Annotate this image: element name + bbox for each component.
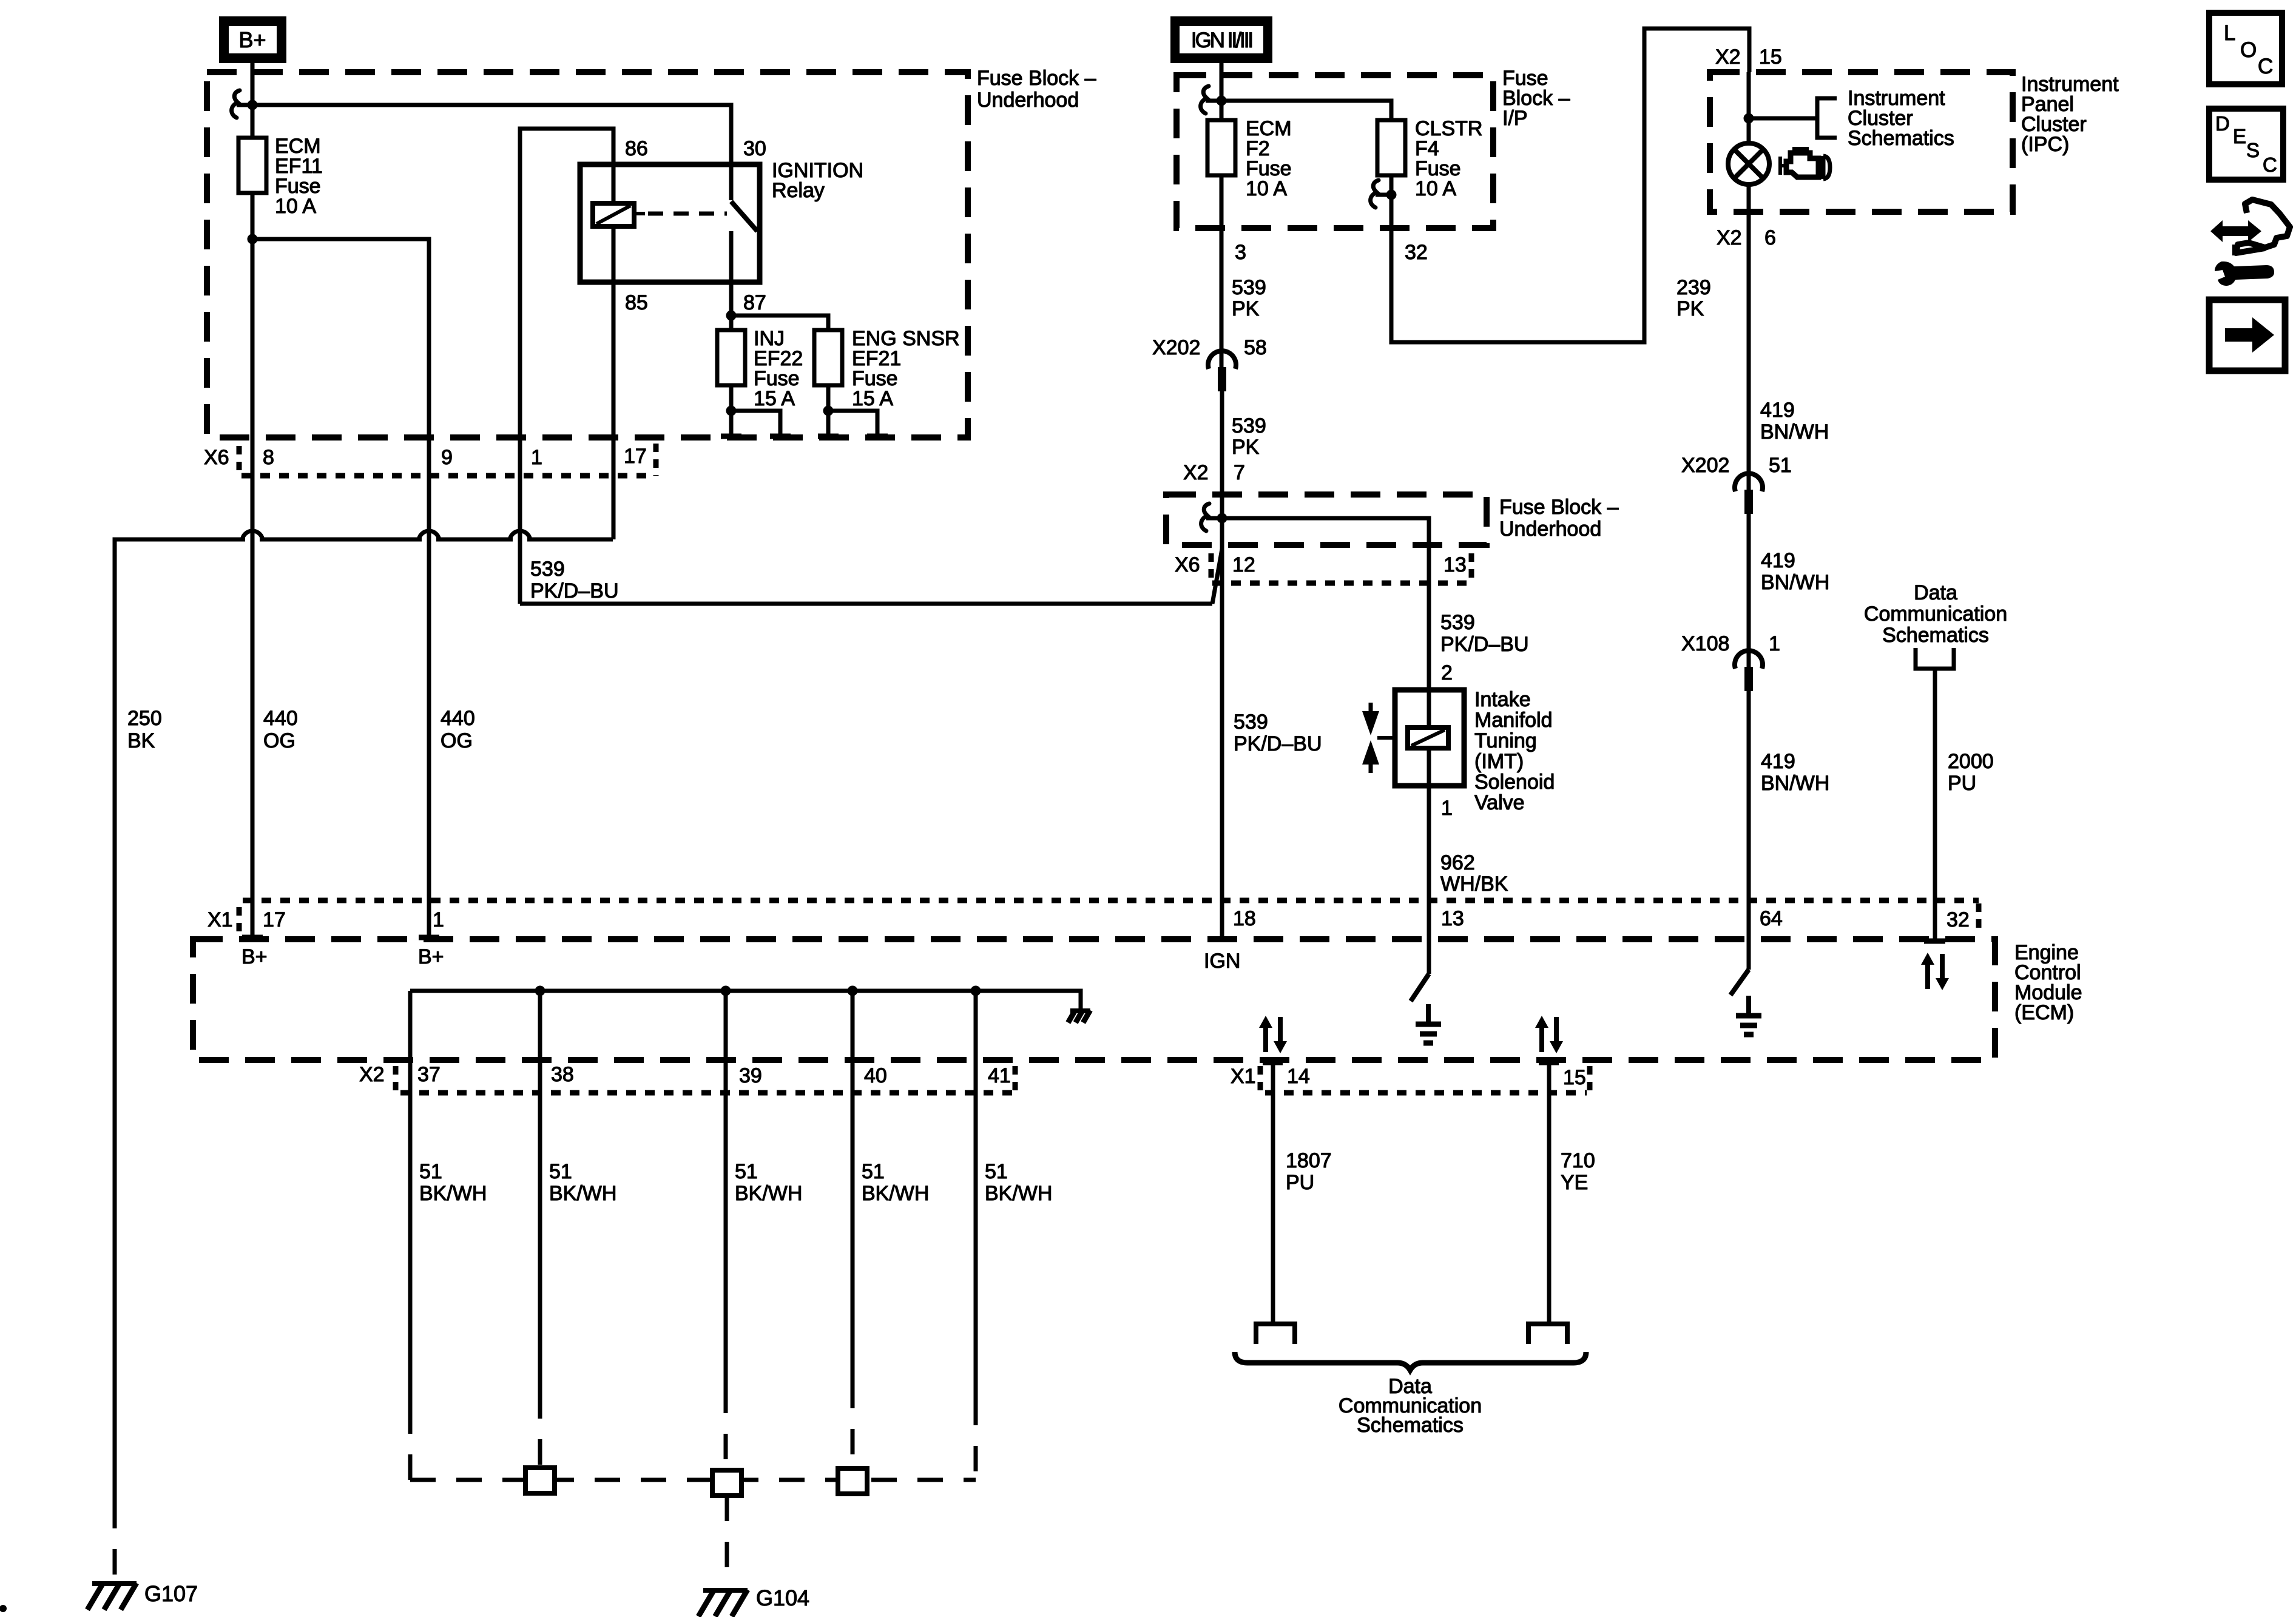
wire feed to CLSTR F4 fuse [1221,101,1391,120]
data wire 1807 PU [1256,1060,1295,1344]
ECM internal chassis ground [1068,1010,1090,1022]
svg-text:G107: G107 [144,1581,198,1606]
svg-text:PK: PK [1676,297,1704,320]
svg-text:85: 85 [625,291,648,314]
label 419 BN/WH (lower) [1761,750,1829,795]
label 539 PK [1232,276,1266,320]
reference pennant Data Communication Schematics (right) [1864,581,2007,939]
wire branch to X6-9 / ECM X1-1 (440 OG) [252,239,429,937]
svg-text:Data: Data [1914,581,1957,604]
power feed box IGN II/III [1170,16,1272,63]
in-line connector X202 pin 51 [1681,454,1792,514]
svg-text:87: 87 [743,291,766,314]
svg-text:1: 1 [1441,797,1453,820]
label 962 WH/BK [1440,851,1508,896]
wire B+ to EF11 fuse [251,63,255,138]
svg-text:PU: PU [1948,772,1976,795]
svg-text:15 A: 15 A [852,387,893,410]
svg-text:Tuning: Tuning [1474,729,1537,752]
wire F2 output 539 PK to X202-58 [1220,175,1224,369]
fuse ENG SNSR EF21 15A [814,327,960,410]
svg-text:Fuse Block –: Fuse Block – [977,67,1096,90]
fuse clip at B+ feed [232,90,252,118]
svg-text:38: 38 [551,1063,574,1086]
svg-text:1: 1 [1769,632,1780,655]
svg-text:Underhood: Underhood [977,89,1079,112]
data arrows at ECM X1-15 [1535,1016,1563,1053]
engine MIL icon [1780,149,1830,179]
svg-text:X2: X2 [1717,226,1742,249]
svg-text:Schematics: Schematics [1848,127,1954,150]
svg-text:3: 3 [1235,241,1246,264]
svg-text:S: S [2246,139,2260,161]
label Fuse Block - Underhood (middle) [1499,496,1619,541]
svg-text:Manifold: Manifold [1474,709,1553,732]
svg-text:OG: OG [441,729,473,752]
wire 419 BN/WH to X108-1 [1747,513,1751,669]
fuse ECM EF11 10A [238,135,323,218]
fuse block I/P dashed outline [1177,75,1493,228]
fuse clip at IGN feed [1201,86,1221,113]
svg-text:51: 51 [862,1160,885,1183]
svg-text:X202: X202 [1152,336,1200,359]
svg-text:BN/WH: BN/WH [1760,420,1829,444]
junction dot IGN feed [1217,96,1227,106]
label 539 PK/D-BU (ECM ign) [1234,711,1322,755]
label 239 PK [1676,276,1711,320]
svg-text:Schematics: Schematics [1882,624,1989,647]
label 419 BN/WH (middle) [1761,549,1829,594]
svg-text:2: 2 [1441,661,1453,684]
junction dot at relay pin 87 [726,311,737,321]
svg-text:B+: B+ [241,945,268,968]
data arrows at ECM X1-14 [1259,1016,1287,1053]
label 539 PK/D-BU (IMT) [1440,611,1529,656]
relay switch pin 30 and blade [731,164,757,231]
svg-text:64: 64 [1760,907,1783,930]
ECM pin13 switch to ground [1411,939,1441,1043]
svg-text:58: 58 [1244,336,1267,359]
ground wires 51 BK/WH (37-41) [410,1060,976,1480]
svg-text:G104: G104 [756,1585,809,1610]
svg-text:BK/WH: BK/WH [419,1182,487,1205]
svg-text:BK/WH: BK/WH [985,1182,1052,1205]
ECM dashed outline [193,939,1995,1060]
labels 1807 PU [1286,1149,1332,1194]
svg-text:Schematics: Schematics [1357,1414,1464,1437]
svg-text:Solenoid: Solenoid [1474,771,1555,794]
wire pin 85 to ground bus [612,282,616,539]
svg-text:51: 51 [985,1160,1008,1183]
svg-text:1: 1 [433,908,444,931]
label Fuse Block - I/P [1502,67,1570,130]
relay switch output pin 87 [729,231,734,316]
wire 419 BN/WH to ECM pin 64 [1747,690,1751,939]
labels 51 BK/WH x5 [419,1160,1052,1205]
ground splice bus [410,1478,976,1482]
svg-text:30: 30 [743,137,766,160]
svg-text:10 A: 10 A [1246,177,1287,200]
wire into IPC to indicator [1747,72,1751,143]
svg-text:BK/WH: BK/WH [735,1182,802,1205]
wire 962 WH/BK to ECM pin 13 [1427,786,1431,939]
wire X6-1 (539 PK/D-BU) down to horizontal run [520,534,1222,604]
svg-text:Underhood: Underhood [1499,518,1601,541]
svg-text:51: 51 [549,1160,572,1183]
wire feed to relay pin 30 [252,105,731,164]
svg-text:539: 539 [1232,414,1266,437]
labels 710 YE [1561,1149,1595,1194]
EF21 output terminal lip [818,385,888,436]
label 419 BN/WH (upper) [1760,399,1829,444]
svg-text:PU: PU [1286,1171,1314,1194]
wire X6-12 539 PK/D-BU to ECM pin 18 IGN [1220,549,1224,937]
ECM internal ground bus [410,986,1081,1010]
in-line connector X202 pin 58 [1152,336,1267,391]
svg-text:419: 419 [1761,549,1795,572]
brace Data Communication Schematics (bottom) [1235,1352,1586,1437]
junction dot X2-7 feed [1217,513,1227,524]
wire splice to G104 [725,1496,729,1588]
svg-text:PK/D–BU: PK/D–BU [1234,732,1322,755]
label 440 OG (X6-8) [263,707,298,752]
svg-text:PK/D–BU: PK/D–BU [1440,633,1529,656]
ground G104 [698,1585,809,1616]
svg-text:PK: PK [1232,297,1260,320]
svg-text:539: 539 [530,558,565,581]
fuse ECM F2 10A [1207,117,1292,200]
svg-text:39: 39 [739,1064,762,1087]
svg-text:C: C [2258,55,2273,78]
svg-text:X1: X1 [208,908,233,931]
data wire 710 YE [1528,1060,1567,1344]
svg-text:B+: B+ [238,27,266,52]
label Intake Manifold Tuning (IMT) Solenoid Valve [1474,688,1555,814]
connector row X2 (ECM bottom left) [359,1063,1018,1093]
svg-text:10 A: 10 A [1415,177,1456,200]
svg-text:41: 41 [988,1064,1011,1087]
wire indicator to X2-6 [1747,184,1751,212]
junction dot B+ feed [248,100,258,110]
svg-text:L: L [2224,21,2235,45]
svg-text:YE: YE [1561,1171,1588,1194]
svg-text:PK/D–BU: PK/D–BU [530,579,619,603]
svg-text:BN/WH: BN/WH [1761,772,1829,795]
svg-text:17: 17 [624,445,647,468]
wire 239 PK from F4 to IPC X2-15 [1391,29,1749,342]
fuse clip F4 output [1371,180,1391,208]
EF22 output terminal lip [721,385,791,436]
svg-text:C: C [2263,154,2277,176]
wire feed to X6-13 [1222,518,1429,545]
indicator bulb [1728,143,1769,184]
wire 539 PK to X2-7 [1220,390,1224,495]
svg-text:710: 710 [1561,1149,1595,1172]
svg-text:1807: 1807 [1286,1149,1332,1172]
svg-text:D: D [2215,112,2230,135]
sidebar icon DESC [2209,109,2283,180]
svg-text:51: 51 [1769,454,1792,477]
wire X2-7 through block to X6-12 [1220,495,1224,549]
ground bus wire 250 BK to G107 [115,539,613,1581]
sidebar icon next-page arrow [2209,300,2285,371]
svg-text:Valve: Valve [1474,791,1525,814]
label 440 OG (X6-9) [441,707,475,752]
svg-text:13: 13 [1443,553,1467,576]
svg-text:X6: X6 [1175,553,1200,576]
svg-text:Relay: Relay [772,179,825,202]
svg-text:32: 32 [1405,241,1428,264]
svg-text:Communication: Communication [1864,603,2007,626]
svg-text:51: 51 [735,1160,758,1183]
svg-text:419: 419 [1760,399,1795,422]
svg-text:O: O [2240,38,2257,62]
svg-text:I/P: I/P [1502,107,1528,130]
svg-text:BK/WH: BK/WH [862,1182,929,1205]
label IGNITION Relay [772,159,863,202]
svg-text:OG: OG [263,729,295,752]
svg-text:13: 13 [1441,907,1464,930]
labels B+ B+ IGN [241,945,1240,973]
svg-text:X2: X2 [1183,461,1209,484]
label 539 PK (lower) [1232,414,1266,459]
svg-text:6: 6 [1764,226,1776,249]
data arrows at ECM pin 32 [1921,953,1949,990]
svg-text:239: 239 [1676,276,1711,299]
ignition relay box [580,164,760,282]
labels X2 6 (IPC bottom) [1717,226,1776,249]
ground G107 [87,1581,198,1610]
label Engine Control Module (ECM) [2014,941,2082,1024]
svg-text:X2: X2 [1715,46,1741,69]
IMT solenoid coil [1408,727,1448,748]
svg-text:14: 14 [1287,1065,1310,1088]
svg-text:539: 539 [1440,611,1475,634]
wire to INJ EF22 fuse [729,316,734,330]
IMT valve symbol [1362,703,1396,773]
in-line connector X108 pin 1 [1681,632,1780,691]
svg-text:BN/WH: BN/WH [1761,571,1829,594]
svg-text:40: 40 [864,1064,887,1087]
IMT solenoid valve box [1395,690,1464,786]
svg-text:8: 8 [263,446,274,469]
wire X6-13 539 PK/D-BU to IMT solenoid [1427,545,1431,690]
svg-text:12: 12 [1232,553,1255,576]
connector row X1 (ECM bottom middle) [1231,1065,1590,1093]
splice squares [525,1468,867,1496]
svg-text:X6: X6 [204,446,229,469]
fuse block underhood (middle) dashed outline [1166,495,1487,545]
fuse block underhood (left) dashed outline [207,72,968,437]
ECM pin64 switch to ground [1730,939,1761,1035]
svg-text:X2: X2 [359,1063,385,1086]
relay actuation dashed link [634,212,645,215]
junction dot below EF11 [248,234,258,245]
label 250 BK [127,707,162,752]
svg-text:9: 9 [441,446,453,469]
svg-text:IGN II/III: IGN II/III [1191,29,1252,52]
svg-text:X108: X108 [1681,632,1729,655]
wire branch to ENG SNSR EF21 fuse [731,316,828,330]
label Instrument Panel Cluster (IPC) [2021,73,2119,156]
fuse CLSTR F4 10A [1377,117,1482,200]
svg-text:X202: X202 [1681,454,1729,477]
relay coil [593,203,634,226]
labels X2 7 [1183,461,1245,484]
svg-text:51: 51 [419,1160,442,1183]
IPC dashed outline [1710,72,2013,212]
svg-text:15: 15 [1563,1066,1586,1089]
svg-text:15: 15 [1759,46,1782,69]
svg-text:IGN: IGN [1204,950,1240,973]
svg-text:440: 440 [441,707,475,730]
svg-text:440: 440 [263,707,298,730]
label 2000 PU [1948,750,1994,795]
svg-text:37: 37 [417,1063,441,1086]
svg-text:(ECM): (ECM) [2014,1001,2074,1024]
svg-text:(IPC): (IPC) [2021,133,2069,156]
wire EF11 to X6-8 and ECM X1-17 (440 OG) [251,193,255,937]
IMT solenoid internal wire [1427,690,1431,786]
svg-text:962: 962 [1440,851,1475,874]
sidebar icon LOC [2209,13,2282,84]
connector row X6 (left fuse block) [204,444,656,476]
svg-text:18: 18 [1233,907,1256,930]
svg-text:539: 539 [1232,276,1266,299]
labels X2 15 (IPC top) [1715,46,1782,69]
svg-text:32: 32 [1947,908,1970,931]
svg-text:539: 539 [1234,711,1268,734]
svg-text:Intake: Intake [1474,688,1531,711]
page corner dot [0,1605,7,1612]
svg-text:X1: X1 [1231,1065,1256,1088]
fuse INJ EF22 15A [717,327,803,410]
svg-text:419: 419 [1761,750,1795,773]
svg-text:2000: 2000 [1948,750,1994,773]
svg-text:(IMT): (IMT) [1474,750,1524,773]
svg-text:15 A: 15 A [754,387,795,410]
fuse clip at X2-7 feed [1201,504,1222,531]
svg-text:17: 17 [263,908,286,931]
svg-text:E: E [2233,125,2246,147]
connector row X6 (middle) [1175,553,1471,583]
svg-text:86: 86 [625,137,648,160]
ECM ground pin wires 37-41 [410,991,976,1060]
svg-text:BK: BK [127,729,155,752]
label 539 PK/D-BU (left) [530,558,619,603]
svg-text:250: 250 [127,707,162,730]
reference bracket Instrument Cluster Schematics [1749,87,1954,150]
relay coil wire pin 86 [612,164,616,282]
sidebar interactive icon (arrow wrench) [2210,200,2290,286]
svg-text:B+: B+ [418,945,444,968]
wire 419 BN/WH to X202-51 [1747,212,1751,491]
junction dot IPC [1744,113,1754,124]
svg-text:7: 7 [1234,461,1245,484]
junction dot F4 output [1386,190,1397,200]
label Fuse Block - Underhood (left) [977,67,1096,112]
wire IGN II/III into fuse block [1220,63,1224,120]
svg-text:1: 1 [531,446,542,469]
svg-text:PK: PK [1232,436,1260,459]
wire hops over ground bus [245,536,260,543]
power feed box B+ [219,16,286,63]
svg-text:Fuse Block –: Fuse Block – [1499,496,1619,519]
svg-text:BK/WH: BK/WH [549,1182,616,1205]
pin labels 86 30 85 87 [625,137,766,314]
pin feet X1-17 X1-1 X1-32 [242,937,1945,941]
svg-text:WH/BK: WH/BK [1440,873,1508,896]
svg-text:10 A: 10 A [275,195,316,218]
wire pin 86 feed from X6-1 (539 PK/D-BU) [520,129,613,534]
connector row X1 (ECM top) [208,900,1979,934]
